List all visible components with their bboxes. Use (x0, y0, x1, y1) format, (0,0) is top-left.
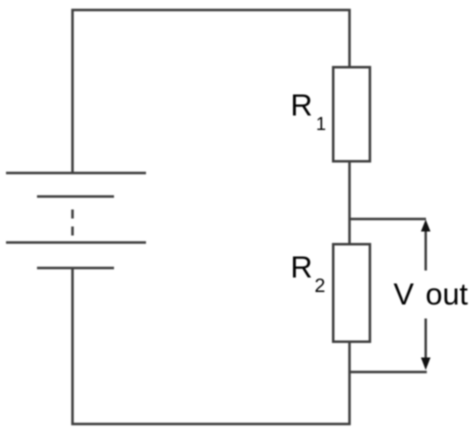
svg-text:R: R (291, 89, 313, 123)
svg-text:out: out (426, 278, 469, 312)
svg-text:R: R (291, 251, 313, 285)
svg-text:V: V (394, 278, 415, 312)
svg-text:1: 1 (316, 114, 326, 134)
svg-text:2: 2 (315, 275, 326, 297)
